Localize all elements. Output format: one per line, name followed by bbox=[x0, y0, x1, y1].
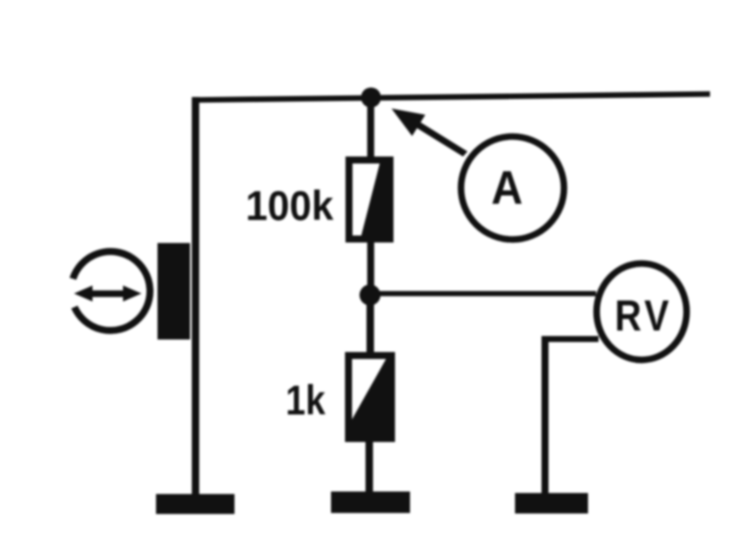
wire node B to RV meter bbox=[375, 291, 596, 296]
label 100k bbox=[246, 182, 334, 229]
label RV bbox=[615, 291, 672, 341]
svg-text:RV: RV bbox=[615, 291, 672, 341]
resistor R2 1k body bbox=[349, 356, 392, 439]
node B (mid junction) bbox=[360, 285, 381, 306]
wire node B down to R2 bbox=[367, 295, 375, 357]
wire RV lower-left horizontal bbox=[542, 336, 599, 342]
arrow from meter A to node A bbox=[392, 109, 468, 157]
ground middle bbox=[331, 492, 410, 514]
wire top horizontal bus bbox=[193, 91, 711, 103]
wire RV down to ground bbox=[542, 336, 549, 494]
transducer X1 coupling block bbox=[158, 243, 191, 340]
meter A circle bbox=[461, 137, 564, 240]
wire R2 to ground bbox=[366, 437, 374, 493]
transducer X1 double arrow bbox=[74, 286, 142, 302]
meter RV circle bbox=[597, 264, 687, 360]
resistor R1 100k body bbox=[349, 160, 390, 239]
label 1k bbox=[286, 378, 326, 424]
svg-text:1k: 1k bbox=[286, 378, 326, 424]
wire R1 to node B bbox=[367, 239, 374, 296]
ground right bbox=[515, 493, 588, 514]
label A bbox=[491, 161, 523, 214]
ground left bbox=[156, 494, 235, 514]
wire left vertical bbox=[192, 97, 199, 494]
svg-text:A: A bbox=[491, 161, 523, 214]
svg-text:100k: 100k bbox=[246, 182, 334, 229]
transducer X1 circle (open left) bbox=[73, 251, 150, 330]
wire node A down to R1 bbox=[367, 97, 374, 161]
node A (top junction) bbox=[361, 88, 381, 108]
